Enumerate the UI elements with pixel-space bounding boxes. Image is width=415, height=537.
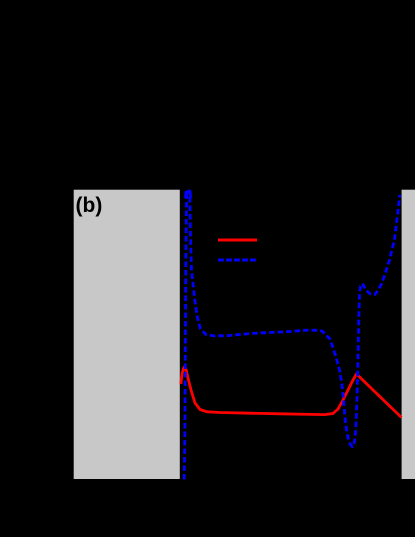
legend blue dashed line — [218, 259, 256, 262]
shaded region right (gray axvspan) — [402, 190, 415, 479]
blue spike cap (merged dashes at clipped peak) — [185, 192, 190, 198]
red curve — [181, 367, 402, 418]
blue curve (dashed) — [184, 191, 400, 480]
shaded region left (gray axvspan) — [74, 190, 180, 479]
svg-text:(b): (b) — [76, 194, 103, 217]
legend red solid line — [218, 239, 257, 242]
